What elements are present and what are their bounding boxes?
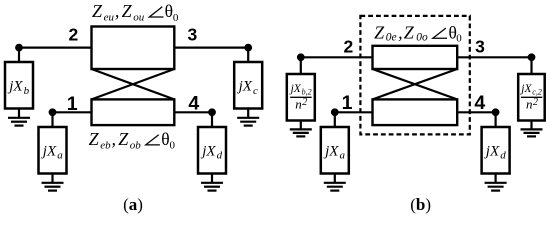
value label jXb,2/n^2 <box>289 83 312 112</box>
wire node2 to jXb (a) <box>18 48 20 62</box>
svg-text:d: d <box>500 150 506 162</box>
wire port 2 (b) <box>301 56 373 58</box>
svg-text:(b): (b) <box>410 195 431 214</box>
svg-text:jX: jX <box>289 83 302 95</box>
coupled-line upper section (b) <box>373 46 458 69</box>
svg-text:,: , <box>112 129 117 149</box>
svg-text:4: 4 <box>188 92 199 114</box>
svg-text:c: c <box>253 85 258 97</box>
svg-text:2: 2 <box>533 97 538 108</box>
svg-text:a: a <box>57 150 63 162</box>
coupled-line upper section (a) <box>92 27 175 70</box>
node port 1 (a) <box>49 108 57 116</box>
svg-text:0o: 0o <box>416 32 428 44</box>
reactance jXd box (b) <box>482 127 510 174</box>
svg-text:jX: jX <box>200 143 216 159</box>
wire node1 to jXa (a) <box>51 112 53 127</box>
wire port 3 (b) <box>457 56 531 58</box>
svg-text:θ: θ <box>161 129 169 149</box>
wire port 4 (a) <box>174 111 212 113</box>
ground under jXa (a) <box>42 174 64 191</box>
svg-text:,: , <box>115 1 120 21</box>
reactance jXa box (a) <box>39 127 67 174</box>
svg-text:2: 2 <box>344 36 354 56</box>
reactance jXb,2/n^2 box (b) <box>287 74 315 121</box>
wire port 4 (b) <box>457 111 495 113</box>
wire port 1 (b) <box>335 111 373 113</box>
ground under jXc2 (b) <box>521 121 543 137</box>
svg-text:b,2: b,2 <box>302 87 312 96</box>
node port 4 (a) <box>208 108 216 116</box>
wire port 3 (a) <box>174 46 248 48</box>
svg-text:a: a <box>340 150 346 162</box>
svg-text:0e: 0e <box>386 32 397 44</box>
wire node3 to jXc2/n2 (b) <box>530 57 532 74</box>
wire node3 to jXc (a) <box>247 48 249 62</box>
svg-text:n: n <box>526 97 533 112</box>
wire node4 to jXd (a) <box>211 112 213 127</box>
ground under jXd (a) <box>201 174 223 191</box>
svg-text:Z: Z <box>374 22 385 42</box>
node port 4 (b) <box>492 108 500 116</box>
node port 3 (a) <box>244 44 252 52</box>
node port 2 (b) <box>297 53 305 61</box>
svg-text:2: 2 <box>69 25 79 45</box>
node port 1 (b) <box>331 108 339 116</box>
svg-text:4: 4 <box>474 92 485 114</box>
svg-text:ou: ou <box>133 12 145 24</box>
node port 2 (a) <box>15 44 23 52</box>
ground under jXa (b) <box>324 174 346 191</box>
reactance jXa box (b) <box>321 127 349 174</box>
node port 3 (b) <box>528 53 536 61</box>
wire node4 to jXd (b) <box>495 112 497 127</box>
svg-text:Z: Z <box>118 129 129 149</box>
value label jXd <box>200 143 222 161</box>
svg-text:jX: jX <box>7 79 23 95</box>
ground under jXb2 (b) <box>290 121 312 137</box>
value label jXc,2/n^2 <box>519 83 542 112</box>
ground under jXc (a) <box>237 109 259 126</box>
reactance jXd box (a) <box>198 127 226 174</box>
svg-text:0: 0 <box>170 140 176 152</box>
svg-text:ob: ob <box>130 139 142 151</box>
ground under jXb (a) <box>8 109 30 126</box>
value label jXd (b) <box>484 143 506 161</box>
svg-text:1: 1 <box>342 92 353 114</box>
coupled-line crossover wires (a) <box>92 69 175 99</box>
value label Zeb,Zob angle theta0 (a bottom) <box>89 129 176 152</box>
value label jXb <box>7 79 29 97</box>
svg-text:d: d <box>217 150 223 162</box>
svg-text:jX: jX <box>41 143 57 159</box>
svg-text:(a): (a) <box>123 195 143 214</box>
svg-text:1: 1 <box>67 93 78 115</box>
svg-text:0: 0 <box>173 12 179 24</box>
svg-text:θ: θ <box>165 1 173 21</box>
svg-text:,: , <box>398 22 403 42</box>
value label Zeu,Zou angle theta0 (a top) <box>92 1 179 24</box>
svg-text:2: 2 <box>302 97 307 108</box>
reactance jXc,2/n^2 box (b) <box>518 74 545 121</box>
dashed enclosure box (b) <box>360 16 469 134</box>
coupled-line lower section (b) <box>373 99 458 125</box>
svg-text:0: 0 <box>456 32 462 44</box>
svg-text:jX: jX <box>519 83 532 95</box>
svg-text:Z: Z <box>404 22 415 42</box>
reactance jXc box (a) <box>234 62 262 109</box>
svg-text:eb: eb <box>100 139 111 151</box>
value label jXa <box>41 143 63 161</box>
value label jXc <box>237 79 258 97</box>
svg-text:3: 3 <box>475 36 485 56</box>
svg-text:eu: eu <box>104 12 115 24</box>
value label jXa (b) <box>323 143 345 161</box>
svg-text:n: n <box>295 97 302 112</box>
wire port 2 (a) <box>19 46 92 48</box>
svg-text:Z: Z <box>122 1 133 21</box>
svg-text:Z: Z <box>89 129 100 149</box>
wire port 1 (a) <box>53 111 92 113</box>
wire node1 to jXa (b) <box>334 112 336 127</box>
svg-text:c,2: c,2 <box>532 87 542 96</box>
value label Z0e,Z0o angle theta0 (b) <box>374 22 462 44</box>
svg-text:b: b <box>24 85 30 97</box>
svg-text:jX: jX <box>484 143 500 159</box>
svg-text:3: 3 <box>188 25 198 45</box>
wire node2 to jXb2/n2 (b) <box>300 57 302 74</box>
coupled-line crossover wires (b) <box>373 69 458 99</box>
svg-text:jX: jX <box>237 79 253 95</box>
svg-text:jX: jX <box>323 143 339 159</box>
reactance jXb box (a) <box>5 62 33 109</box>
ground under jXd (b) <box>485 174 507 191</box>
svg-text:Z: Z <box>92 1 103 21</box>
coupled-line lower section (a) <box>92 99 175 125</box>
